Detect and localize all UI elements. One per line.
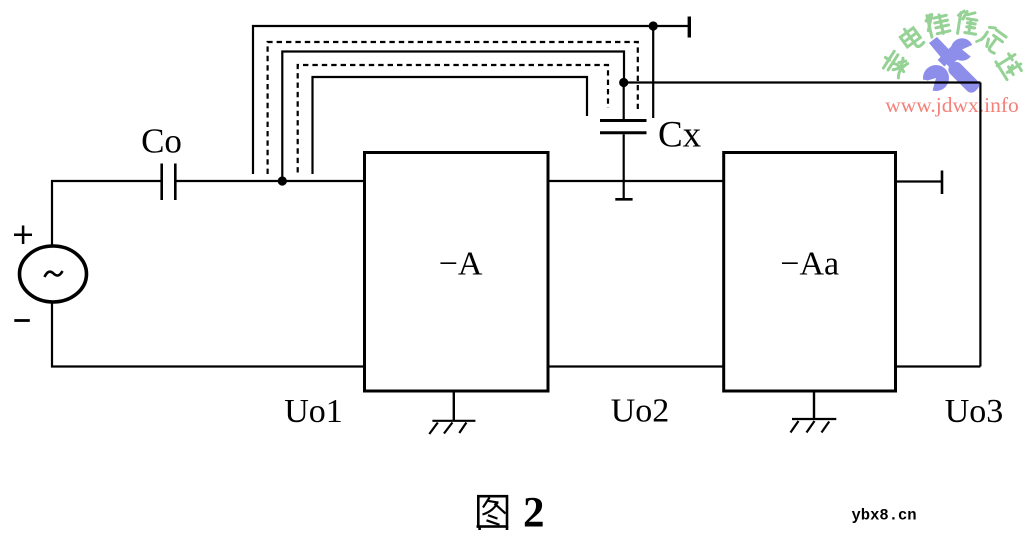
svg-text:Uo2: Uo2 xyxy=(611,393,670,430)
svg-text:ybx8.cn: ybx8.cn xyxy=(852,507,917,525)
shield line S5 inner solid xyxy=(313,77,588,174)
svg-text:−A: −A xyxy=(439,246,483,283)
ground G2 xyxy=(791,419,837,433)
Cx lead end tick xyxy=(615,198,632,201)
watermark logo purple crossed tools icon xyxy=(923,37,982,95)
output terminator bar xyxy=(941,171,944,195)
label - xyxy=(14,319,29,322)
wire Aa output xyxy=(896,180,942,182)
wire feedback right vertical xyxy=(979,83,981,367)
amplifier block U1 -A xyxy=(365,153,549,392)
wire source bottom xyxy=(52,302,365,367)
wire A to Aa bottom xyxy=(548,365,724,367)
node A junction dot xyxy=(278,176,287,185)
capacitor Cx bottom lead xyxy=(623,134,625,199)
svg-text:−Aa: −Aa xyxy=(780,246,839,283)
svg-text:Co: Co xyxy=(141,122,182,161)
wire A to Aa top xyxy=(548,180,724,182)
shield line S2 dashed xyxy=(268,42,638,174)
svg-text:www.jdwx.info: www.jdwx.info xyxy=(885,93,1019,117)
wire source top xyxy=(52,181,161,246)
ground G1 lead xyxy=(453,391,455,421)
node C junction dot at Cx xyxy=(619,78,628,87)
svg-text:Cx: Cx xyxy=(658,115,702,156)
shield line S4 dashed xyxy=(298,65,608,173)
wire feedback top xyxy=(624,81,981,83)
watermark logo green arc text 家电维修论坛 xyxy=(880,10,1024,80)
AC source sine tilde xyxy=(45,271,63,277)
svg-text:2: 2 xyxy=(523,490,545,537)
label + xyxy=(14,226,32,245)
shield line S1 outer solid xyxy=(253,26,688,174)
shield line S3 solid to node xyxy=(282,52,624,182)
wire S1 right drop xyxy=(652,26,654,118)
wire feedback bottom xyxy=(896,365,981,367)
capacitor Cx xyxy=(600,121,647,133)
node B junction dot top xyxy=(649,21,658,30)
title character tu (figure) xyxy=(477,496,508,530)
svg-text:Uo1: Uo1 xyxy=(284,393,343,430)
capacitor Cx top lead xyxy=(623,83,625,120)
wire Co to amp A input xyxy=(177,180,365,182)
ground G1 xyxy=(429,421,475,434)
svg-text:Uo3: Uo3 xyxy=(945,393,1004,430)
AC source V1 xyxy=(20,246,87,302)
capacitor Co xyxy=(162,164,176,201)
amplifier block U2 -Aa xyxy=(724,153,896,392)
ground G2 lead xyxy=(813,391,815,419)
ground terminator bar top right xyxy=(688,17,691,38)
